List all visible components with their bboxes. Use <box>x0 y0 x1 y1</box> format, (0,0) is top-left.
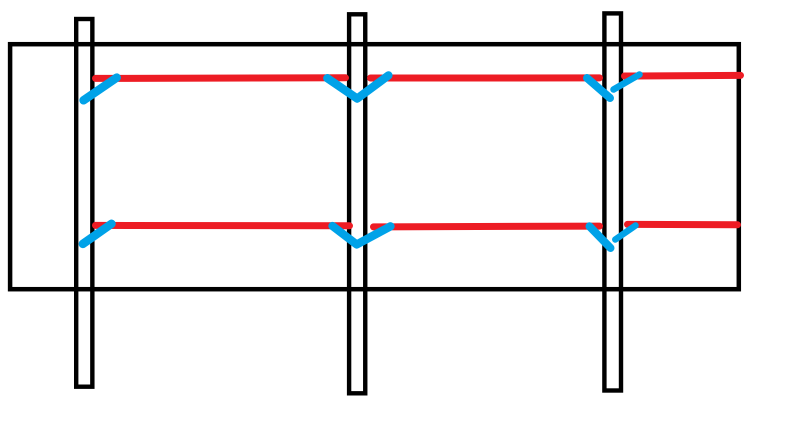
vertical bar 2 <box>349 14 365 393</box>
blue tick bottom-left <box>83 224 112 244</box>
vertical bar 3 <box>604 13 621 390</box>
blue check bottom-middle <box>333 226 391 245</box>
vertical bar 1 <box>76 19 92 387</box>
blue check top-middle <box>327 75 388 98</box>
red bottom line segment 1 <box>96 222 350 229</box>
blue check top-right right stroke <box>614 75 640 90</box>
blue tick top-left <box>84 78 117 101</box>
blue check top-right left stroke <box>587 78 610 98</box>
blue check bottom-right right stroke <box>615 226 635 240</box>
red top line segment 3 <box>625 72 741 80</box>
red top line segment 2 <box>371 74 600 81</box>
big rectangle <box>10 44 739 289</box>
blue check bottom-right left stroke <box>590 226 611 248</box>
red top line segment 1 <box>96 74 346 82</box>
red bottom line segment 2 <box>374 223 600 231</box>
red bottom line segment 3 <box>628 221 738 228</box>
